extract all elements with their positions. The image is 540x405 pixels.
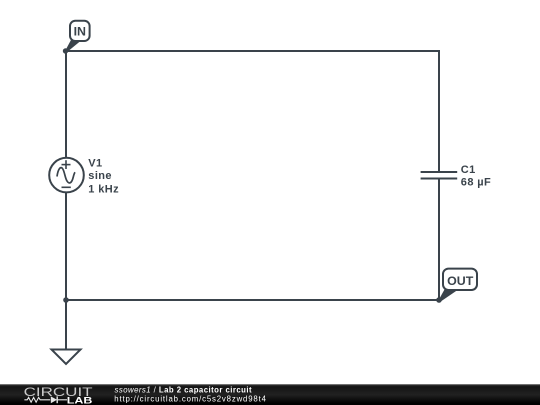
svg-text:C1: C1 xyxy=(461,164,476,176)
node IN dot xyxy=(63,48,68,53)
capacitor C1 top plate xyxy=(421,171,458,173)
wire: capacitor C1 bottom to OUT node xyxy=(438,179,440,301)
OUT flag pointer xyxy=(438,289,458,302)
svg-text:1 kHz: 1 kHz xyxy=(88,184,119,196)
wire: IN node to top-right corner to capacitor C1 top xyxy=(66,51,439,172)
IN flag box xyxy=(70,21,90,41)
CircuitLab logo diode symbol xyxy=(51,396,57,403)
svg-text:V1: V1 xyxy=(88,158,102,170)
wire: bottom, junction to OUT node xyxy=(66,299,439,301)
wire: junction down to ground xyxy=(65,300,67,350)
junction dot xyxy=(63,297,69,303)
wire: V1 bottom terminal down to junction xyxy=(65,192,67,300)
voltage source V1 xyxy=(49,158,84,193)
svg-text:68 µF: 68 µF xyxy=(461,176,491,188)
capacitor C1 bottom plate xyxy=(421,178,458,180)
CircuitLab logo resistor symbol xyxy=(24,397,50,402)
svg-text:sine: sine xyxy=(88,170,112,182)
svg-text:OUT: OUT xyxy=(447,274,474,288)
node OUT dot xyxy=(436,297,442,303)
svg-text:ssowers1 / Lab 2 capacitor cir: ssowers1 / Lab 2 capacitor circuit xyxy=(115,385,253,394)
IN flag pointer xyxy=(65,39,81,53)
footer bar xyxy=(0,384,540,405)
svg-text:IN: IN xyxy=(74,25,86,39)
wire: left side, IN node down to V1 top terminal xyxy=(65,51,67,158)
ground xyxy=(52,350,81,365)
svg-text:http://circuitlab.com/c5s2v8zw: http://circuitlab.com/c5s2v8zwd98t4 xyxy=(114,395,266,404)
svg-text:LAB: LAB xyxy=(67,395,93,405)
OUT flag box xyxy=(443,269,477,290)
